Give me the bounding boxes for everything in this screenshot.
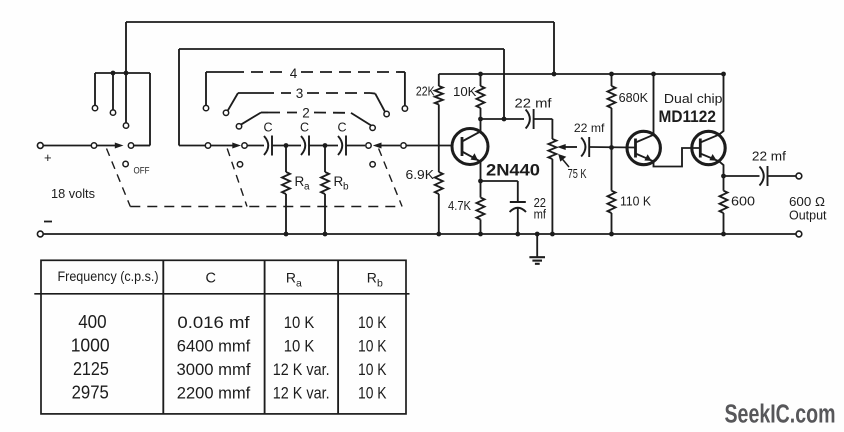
label C 1 [263, 121, 272, 135]
svg-text:6.9K: 6.9K [406, 168, 435, 182]
svg-text:12 K var.: 12 K var. [273, 384, 330, 403]
switch S1a position 2 contact [123, 73, 128, 128]
label 75 K [568, 167, 587, 181]
wire gang link S1c [379, 149, 403, 207]
switch S1b common contact [242, 143, 247, 148]
wire position 2 link [261, 113, 371, 126]
svg-text:R: R [334, 174, 344, 189]
svg-text:10K: 10K [453, 85, 477, 99]
transistor U1a emitter [636, 148, 701, 167]
wire C3 to S1c [346, 145, 365, 147]
potentiometer 75K wiper [557, 144, 577, 150]
potentiometer 75K [548, 139, 556, 236]
resistor 110K [608, 148, 616, 237]
label Dual chip [664, 92, 723, 106]
switch S1c pos3 contact [384, 111, 389, 116]
node - battery terminal [37, 222, 52, 237]
node collector junction [478, 117, 483, 122]
resistor 680K [608, 74, 616, 148]
svg-text:C: C [337, 121, 346, 135]
switch S1b pos4 contact [203, 72, 208, 111]
capacitor C1 [264, 136, 272, 156]
wire C1-C2 [272, 145, 301, 147]
svg-text:a: a [296, 278, 302, 290]
svg-text:Output: Output [789, 207, 827, 222]
transistor U1b MD1122 body [692, 131, 725, 164]
node output terminal + [796, 173, 802, 179]
capacitor 22mf bypass [510, 202, 526, 212]
label 18 volts [51, 186, 95, 201]
wire second bus (oscillator feedback) [179, 49, 504, 146]
label 22 mf feedback [515, 97, 553, 111]
transistor Q1 2N440 body [452, 129, 488, 165]
switch S1c pos4 contact [402, 106, 407, 111]
label Ra [295, 174, 311, 193]
switch S1c common contact [366, 143, 371, 148]
switch S1a position 3 contact [110, 73, 115, 115]
svg-text:b: b [343, 182, 349, 193]
label 110 K [620, 195, 652, 209]
switch S1a OFF contact [123, 161, 150, 175]
svg-text:OFF: OFF [134, 165, 150, 175]
wire emitter to output cap [724, 175, 760, 177]
wire S1b feed [179, 145, 205, 147]
svg-text:SeekIC.com: SeekIC.com [725, 400, 836, 428]
svg-text:mf: mf [534, 207, 547, 221]
svg-text:10 K: 10 K [284, 313, 315, 332]
wire top feedback line [126, 22, 554, 74]
resistor 22K [435, 74, 443, 172]
label 75K pointer arrow [558, 154, 569, 167]
svg-text:22 mf: 22 mf [574, 121, 605, 135]
switch S1a common contact [128, 143, 133, 148]
svg-text:2N440: 2N440 [486, 160, 540, 179]
wire collector node to cap [481, 117, 525, 122]
wire S1a feed [43, 145, 91, 147]
svg-text:10 K: 10 K [358, 313, 387, 332]
svg-text:12 K var.: 12 K var. [273, 360, 330, 379]
label 4.7K [448, 199, 472, 213]
switch S1b OFF contact [237, 162, 242, 167]
label SeekIC.com watermark [725, 400, 836, 428]
wire position 4 link [206, 72, 405, 106]
wire to C1 [248, 145, 265, 147]
table component values [34, 260, 409, 414]
wire bottom ground bus [43, 233, 796, 235]
label 600 ohm output [789, 194, 827, 222]
svg-text:Dual chip: Dual chip [664, 92, 723, 106]
svg-text:C: C [206, 271, 216, 287]
switch S1a wiper [91, 143, 123, 149]
wire bypass cap to bus [515, 209, 520, 237]
svg-text:4: 4 [290, 66, 298, 81]
svg-text:0.016 mf: 0.016 mf [177, 313, 249, 332]
svg-text:680K: 680K [619, 91, 649, 105]
svg-text:MD1122: MD1122 [659, 107, 716, 126]
node output terminal - [796, 231, 802, 237]
label 600 [731, 195, 755, 209]
wire C2-C3 [309, 145, 338, 147]
label 22K [416, 85, 435, 99]
resistor 4.7K [477, 181, 485, 236]
transistor U1b emitter [700, 154, 723, 177]
switch S1c wiper [373, 143, 400, 149]
label 6.9K [406, 168, 435, 182]
svg-text:R: R [286, 270, 296, 286]
svg-text:4.7K: 4.7K [448, 199, 472, 213]
switch S1b pos2 contact [236, 113, 261, 130]
label 2N440 [486, 160, 540, 179]
resistor 6.9K [435, 172, 443, 236]
label 3 [296, 86, 304, 101]
resistor 600 [720, 176, 728, 236]
label C 2 [300, 121, 309, 135]
label MD1122 [659, 107, 716, 126]
capacitor C3 [338, 136, 346, 156]
svg-text:600: 600 [731, 195, 755, 209]
node A (C1/C2/Ra) [284, 143, 289, 148]
svg-text:R: R [367, 270, 377, 286]
wire S1c to base [407, 145, 453, 147]
node + battery terminal [37, 143, 51, 165]
svg-text:6400 mmf: 6400 mmf [177, 337, 251, 356]
svg-text:C: C [300, 121, 309, 135]
svg-text:2: 2 [302, 106, 310, 121]
switch S1c OFF contact [370, 162, 375, 167]
label 680K [619, 91, 649, 105]
svg-text:b: b [377, 278, 383, 290]
label 22 mf bypass [534, 196, 547, 221]
svg-text:10 K: 10 K [358, 384, 387, 403]
svg-text:a: a [304, 182, 310, 193]
node U1b emitter junction [721, 174, 726, 179]
svg-text:110 K: 110 K [620, 195, 652, 209]
node Q1 emitter junction [478, 179, 483, 184]
label 22 mf coupling [574, 121, 605, 135]
label 2 [302, 106, 310, 121]
transistor Q1 collector [462, 119, 481, 142]
transistor U1a MD1122 body [627, 131, 660, 164]
capacitor 22mf feedback [526, 109, 534, 129]
label Rb [334, 174, 350, 193]
node base junction U1a [609, 145, 614, 150]
label 4 [290, 66, 298, 81]
wire gang link S1a [107, 149, 131, 207]
svg-text:2200 mmf: 2200 mmf [177, 384, 251, 403]
node B (C2/C3/Rb) [323, 143, 328, 148]
svg-text:10 K: 10 K [358, 337, 387, 356]
svg-text:22K: 22K [416, 85, 435, 99]
wire coupling cap to base [589, 146, 635, 149]
capacitor 22mf coupling [581, 137, 589, 157]
svg-text:18 volts: 18 volts [51, 186, 95, 201]
transistor U1a collector [636, 74, 654, 143]
svg-text:3000 mmf: 3000 mmf [177, 360, 251, 379]
ground [529, 232, 545, 264]
capacitor C2 [301, 136, 309, 156]
wire gang link S1b [227, 149, 247, 207]
switch S1b pos3 contact [223, 93, 238, 116]
node supply bus junctions [478, 72, 726, 77]
svg-text:C: C [263, 121, 272, 135]
wire position 3 link [238, 93, 385, 112]
svg-text:3: 3 [296, 86, 304, 101]
wire feedback cap to pot [534, 119, 553, 139]
label 22 mf output [752, 150, 787, 164]
switch S1c pos2 contact [370, 125, 375, 130]
transistor Q1 emitter [462, 152, 481, 182]
node S1a bar junctions [111, 71, 129, 76]
wire S1a contact bar [95, 73, 150, 146]
resistor 10K [477, 74, 485, 119]
svg-text:10 K: 10 K [358, 360, 387, 379]
resistor Ra [282, 146, 290, 237]
svg-text:1000: 1000 [71, 336, 110, 356]
wire resistor supply bus [439, 73, 724, 75]
wire emitter to bypass cap [481, 181, 518, 202]
svg-text:75 K: 75 K [568, 167, 587, 181]
svg-text:2975: 2975 [72, 383, 109, 403]
switch S1a position 4 contact [92, 73, 97, 111]
transistor U1b collector [700, 74, 723, 143]
label 10K [453, 85, 477, 99]
svg-text:+: + [44, 150, 52, 165]
resistor Rb [321, 146, 329, 237]
svg-text:2125: 2125 [73, 359, 109, 379]
svg-text:22 mf: 22 mf [515, 97, 553, 111]
svg-text:R: R [295, 174, 305, 189]
switch S1c feed contact [401, 143, 406, 148]
wire gang link horizontal [130, 206, 402, 208]
label C 3 [337, 121, 346, 135]
svg-text:Frequency (c.p.s.): Frequency (c.p.s.) [58, 269, 159, 284]
capacitor 22mf output [760, 166, 768, 186]
svg-text:10 K: 10 K [284, 337, 315, 356]
wire output cap to terminal [768, 175, 796, 177]
switch S1b wiper [205, 143, 241, 149]
svg-text:22 mf: 22 mf [752, 150, 787, 164]
svg-text:400: 400 [78, 312, 106, 332]
